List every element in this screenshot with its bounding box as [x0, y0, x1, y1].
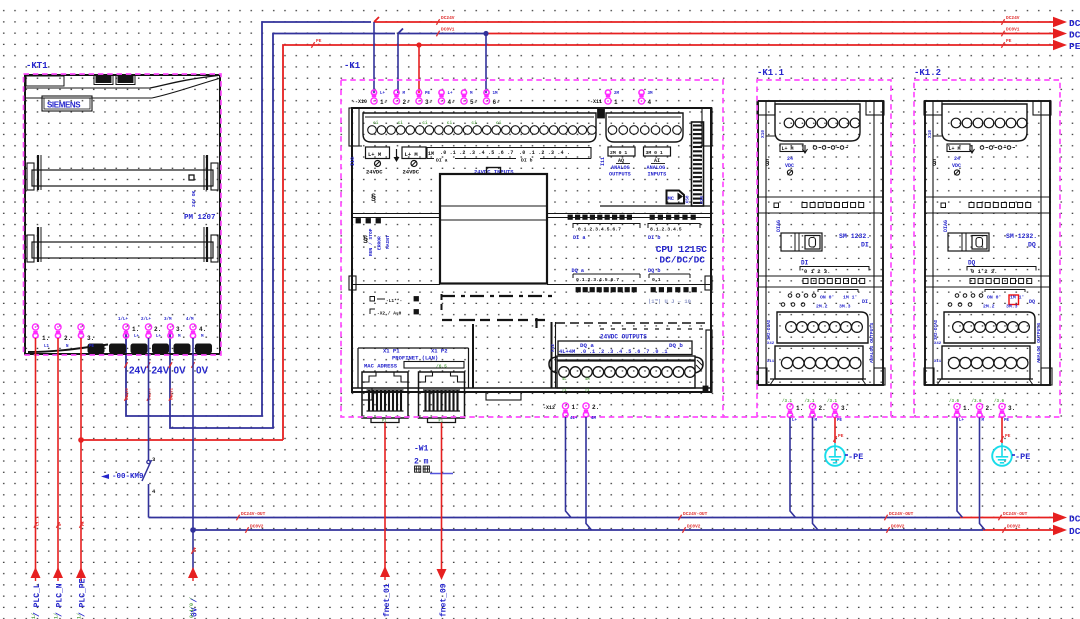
svg-text:2.: 2. — [154, 326, 161, 333]
svg-text:3M2-DIAG: 3M2-DIAG — [768, 319, 772, 340]
arrow 0V exit — [188, 567, 198, 578]
svg-text:fnet_01: fnet_01 — [383, 583, 392, 617]
svg-text:3.: 3. — [1008, 405, 1015, 412]
svg-text:DC: DC — [1069, 526, 1080, 537]
svg-text:PE: PE — [1006, 38, 1012, 44]
status LEDs RUN ERROR MAINT — [356, 219, 361, 224]
svg-text:DI b: DI b — [521, 158, 533, 164]
svg-text:-K1.2: -K1.2 — [914, 68, 941, 78]
svg-text:0V: 0V — [194, 547, 198, 552]
svg-text:DC24V-OUT: DC24V-OUT — [241, 511, 266, 517]
svg-text:-L1**-: -L1**- — [386, 298, 402, 304]
svg-text:ci: ci — [471, 120, 477, 126]
arrow DC24V bus exit right — [1053, 17, 1067, 27]
-K1.2 output terminal strip A — [944, 312, 1035, 343]
node junction PE to -X10:3 — [416, 42, 421, 47]
svg-text:DQ b: DQ b — [648, 268, 660, 274]
label DC24V-OUT left — [236, 515, 239, 521]
svg-text:2.: 2. — [64, 335, 71, 342]
terminal -X12:2 4M — [583, 403, 589, 417]
svg-text:DI: DI — [801, 260, 809, 267]
svg-text:SIEMENS: SIEMENS — [47, 101, 81, 110]
DI b LED row — [650, 215, 654, 219]
power supply -KT1 SIEMENS logo — [42, 96, 92, 111]
svg-text:1/: 1/ — [54, 613, 60, 619]
-K1.1 top terminal strip (7 screw terminals) — [775, 104, 860, 141]
wire -K1.2:1 to DC24V-OUT bus — [957, 418, 963, 518]
svg-text:24V OK: 24V OK — [191, 190, 197, 207]
svg-text:PM 1207: PM 1207 — [184, 214, 216, 222]
terminal -X11:1 2M — [605, 90, 611, 104]
svg-text:-X12: -X12 — [543, 405, 555, 411]
svg-text:24V: 24V — [152, 366, 170, 377]
terminal -X10:1 L+ — [371, 90, 377, 104]
label DC0V1 on top bus right — [1001, 31, 1004, 37]
svg-text:1.: 1. — [132, 326, 139, 333]
svg-text:X30: X30 — [699, 196, 705, 204]
wire -KT1:4 to DC0V2 bus and 0V exit — [192, 338, 194, 569]
DQ a LED row — [576, 288, 580, 292]
-K1.2 LED band — [925, 196, 1050, 198]
svg-text:2M.2: 2M.2 — [816, 304, 828, 310]
svg-text:X11: X11 — [767, 360, 775, 364]
svg-text:3M.3: 3M.3 — [1006, 304, 1018, 310]
terminal -X10:4 L+ — [438, 90, 444, 104]
arrow PLC_N exit — [53, 567, 63, 578]
svg-text:1.: 1. — [42, 335, 49, 342]
wire DC0V2 bottom bus (blue segment) — [193, 529, 983, 531]
DI b legend bracket — [648, 224, 700, 229]
power supply -KT1 24V OK LED — [189, 175, 194, 180]
svg-text:.0 .1 .2 .3 .4 .5 .6 .7: .0 .1 .2 .3 .4 .5 .6 .7 — [440, 150, 514, 156]
svg-text:ci: ci — [373, 120, 379, 126]
svg-text:-X11: -X11 — [590, 99, 602, 105]
svg-text:L+ M: L+ M — [405, 151, 419, 158]
svg-text:DC24V-OUT: DC24V-OUT — [1003, 511, 1028, 517]
-K1.2 output terminal strip B — [942, 346, 1030, 379]
svg-text:L1: L1 — [44, 345, 50, 349]
svg-text:4/M: 4/M — [186, 317, 194, 322]
svg-text:4M: 4M — [591, 417, 597, 421]
arrow glyph between power boxes — [396, 149, 398, 159]
svg-text:L+: L+ — [448, 92, 454, 96]
svg-text:DC0V1: DC0V1 — [441, 27, 455, 33]
PLC CPU -K1 dashed selection border — [341, 80, 723, 417]
terminal -KT1 N input (2) — [55, 324, 61, 338]
-K1.2 DIP switch block — [948, 233, 989, 251]
svg-text:1/: 1/ — [31, 613, 37, 619]
svg-text:ON 0': ON 0' — [987, 295, 1001, 301]
svg-text:1: 1 — [614, 99, 618, 106]
wire PLC_N from -KT1:2 — [57, 338, 59, 569]
analog out terminal box 2M 0 1 — [608, 147, 635, 156]
right bottom corner bracket — [706, 330, 712, 392]
svg-text:1/L+: 1/L+ — [118, 317, 129, 322]
svg-text:2M 0 1: 2M 0 1 — [610, 150, 627, 156]
svg-text:DC24V-OUT: DC24V-OUT — [889, 511, 914, 517]
analog in terminal box 3M 0 1 — [644, 147, 671, 156]
svg-text:/ PLC_L: / PLC_L — [33, 583, 42, 617]
svg-text:PE: PE — [1005, 433, 1011, 439]
svg-text:2.: 2. — [592, 404, 599, 411]
wire -K1.1:2 to DC0V2 bus — [813, 418, 819, 531]
DI terminal legend bracket — [427, 148, 591, 159]
svg-text:2/L+: 2/L+ — [141, 317, 152, 322]
power supply -KT1 lower divider bar — [32, 242, 213, 258]
svg-text:VDC: VDC — [952, 163, 961, 169]
wire DC0V1 top bus (blue segment) — [170, 34, 395, 429]
-K1.2 terminal dots row — [980, 146, 984, 150]
svg-text:§: § — [765, 158, 770, 167]
svg-text:SM 1232.: SM 1232. — [839, 233, 870, 240]
wire -KT1:2 to contact -00-KM9 — [148, 338, 150, 460]
svg-text:ANALOG OUTPUTS: ANALOG OUTPUTS — [1036, 323, 1042, 363]
svg-text:24: 24 — [954, 156, 960, 162]
svg-text:24: 24 — [787, 156, 793, 162]
svg-text:.0 .1 .2 .3 .4 .5 .6 .7 .0 .1: .0 .1 .2 .3 .4 .5 .6 .7 .0 .1 — [580, 349, 667, 355]
svg-text:24VDC OUTPUTS: 24VDC OUTPUTS — [600, 334, 647, 341]
svg-text:PE: PE — [838, 433, 844, 439]
svg-text:-W1: -W1 — [414, 445, 429, 454]
svg-text:L+: L+ — [792, 419, 798, 423]
wire fnet_09 from PROFINET P2 — [441, 423, 443, 570]
-K1.2 red marker box — [1009, 295, 1019, 305]
-K1.1 output terminal strip B — [775, 346, 863, 379]
svg-text:1M: 1M — [493, 92, 499, 96]
svg-text:L+: L+ — [380, 92, 386, 96]
svg-text:RUN / STOP: RUN / STOP — [368, 228, 374, 256]
svg-text:DC0V2: DC0V2 — [687, 524, 701, 530]
connector detail row 2 — [370, 309, 375, 314]
arrow fnet_01 exit — [380, 566, 390, 577]
RJ45 connector at x=441.5 — [419, 372, 465, 418]
RJ45 connector at x=385 — [362, 372, 408, 418]
svg-text:/ PLC_PE: / PLC_PE — [79, 578, 88, 617]
-K1.1 DIP switch block — [781, 233, 822, 251]
svg-text:L+: L+ — [134, 335, 140, 339]
svg-text:L+: L+ — [156, 335, 162, 339]
svg-text:3-: 3- — [425, 99, 432, 106]
wire PLC_PE from -KT1:3 with junction — [80, 338, 82, 569]
-K1.2 top mounting tabs — [924, 101, 942, 115]
svg-text:5-: 5- — [470, 99, 477, 106]
svg-text:X10: X10 — [927, 130, 933, 138]
svg-text:INPUTS: INPUTS — [648, 172, 667, 178]
svg-text:DQ b: DQ b — [669, 342, 683, 349]
svg-text:4: 4 — [648, 99, 652, 106]
label PE on top bus right — [1001, 42, 1004, 48]
svg-text:MC: MC — [668, 195, 675, 202]
svg-text:-00-KM9: -00-KM9 — [112, 473, 144, 481]
svg-text:2.: 2. — [819, 405, 826, 412]
signal module -K1.1 dashed selection border — [757, 80, 891, 417]
svg-text:DC0V2: DC0V2 — [250, 524, 264, 530]
-K1.1 power box L+ M — [780, 144, 803, 152]
wire drop to -X10:2 — [397, 34, 399, 94]
terminal -X10:6 1M — [483, 90, 489, 104]
svg-text:PE: PE — [425, 92, 431, 96]
label DC24V-OUT right1 — [884, 515, 887, 521]
svg-text:DC: DC — [1069, 18, 1080, 29]
wire PE top bus (red) — [283, 45, 1053, 440]
svg-text:§: § — [363, 234, 368, 244]
svg-text:DIAG: DIAG — [943, 220, 949, 232]
-K1.1 LED band — [758, 196, 883, 198]
-K1.1 bottom base — [770, 378, 866, 380]
svg-text:DC24V-OUT: DC24V-OUT — [683, 511, 708, 517]
right hatch dash band — [556, 322, 710, 324]
DI a legend bracket — [573, 224, 640, 229]
svg-text:PE: PE — [837, 419, 843, 423]
terminal -X10:2 M — [393, 90, 399, 104]
PLC CPU -K1 top terminal strip left (24 screw terminals) — [363, 113, 596, 142]
svg-text:ANALOG: ANALOG — [647, 165, 666, 171]
arrow PLC_PE exit — [76, 567, 86, 578]
svg-text:ci: ci — [422, 120, 428, 126]
power supply -KT1 PM1207 body outline — [25, 75, 220, 354]
svg-text:.0 .1 .2 .3 .4 .: .0 .1 .2 .3 .4 . — [519, 150, 570, 156]
label DC0V2 right2 — [1002, 527, 1005, 533]
svg-text:PE: PE — [1069, 41, 1080, 52]
connector detail row 1 — [370, 297, 375, 302]
label DC0V2 right1 — [886, 527, 889, 533]
wire contact -00-KM9 to DC24V-OUT bus — [148, 484, 150, 518]
power supply -KT1 DIN clips row — [88, 344, 104, 353]
wire PLC_L from -KT1:1 — [35, 338, 37, 569]
svg-text:24V: 24V — [129, 366, 147, 377]
svg-text:3.: 3. — [176, 326, 183, 333]
wire -K1.1:3 to PE earth — [834, 418, 836, 444]
terminal -X12:1 4L+ — [562, 403, 568, 417]
-K1.2 top terminal strip (7 screw terminals) — [942, 104, 1027, 141]
svg-text:ci: ci — [447, 120, 453, 126]
wire PE horizontal run to PE bus riser — [81, 439, 283, 441]
svg-text:DI: DI — [861, 242, 869, 249]
svg-text:1.: 1. — [963, 405, 970, 412]
svg-text:/6.5: /6.5 — [436, 364, 447, 370]
svg-text:24VDC: 24VDC — [366, 169, 383, 176]
bus connector comb right side — [692, 122, 704, 206]
DQ output legend box — [558, 341, 692, 355]
svg-text:MAC ADRESS: MAC ADRESS — [364, 363, 398, 370]
power supply -KT1 bottom clip curve — [28, 345, 108, 353]
terminal -KT1 L1 input (1) — [32, 324, 38, 338]
wire DC0V1 red segment to right edge — [486, 33, 1053, 35]
svg-text:fnet_09: fnet_09 — [440, 583, 449, 617]
wire DC24V top bus (red segment to right edge) — [374, 17, 1053, 22]
svg-text:I10: I10 — [350, 157, 356, 166]
svg-text:-PE: -PE — [848, 452, 863, 462]
svg-text:DQ a: DQ a — [572, 268, 584, 274]
svg-text:ANALOG: ANALOG — [611, 165, 630, 171]
svg-text:1.: 1. — [796, 405, 803, 412]
svg-text:2 m: 2 m — [414, 458, 429, 467]
terminal -X10:5 M — [461, 90, 467, 104]
svg-text:1.: 1. — [572, 404, 579, 411]
terminal -KT1 PE input (3) — [78, 324, 84, 338]
svg-text:X42: X42 — [934, 342, 942, 346]
svg-text:(1: (1 — [562, 388, 567, 393]
status LED band divider — [352, 213, 440, 215]
svg-text:ON 0': ON 0' — [820, 295, 834, 301]
svg-text:1M 1': 1M 1' — [1010, 295, 1024, 301]
label DC0V1 on top bus left — [436, 31, 439, 37]
-K1.1 output terminal strip A — [777, 312, 868, 343]
signal module -K1.1 body outline — [758, 101, 883, 385]
terminal -X10:3 PE — [416, 90, 422, 104]
svg-text:§: § — [932, 158, 937, 167]
svg-text:3M2-DIAG: 3M2-DIAG — [935, 319, 939, 340]
svg-text:4.: 4. — [199, 326, 206, 333]
svg-text:-X2 / A≡0: -X2 / A≡0 — [377, 311, 402, 317]
flap hinge lines — [440, 205, 547, 207]
wire -K1.2:2 to DC0V2 bus — [980, 418, 986, 531]
svg-text:⌊1™| U J ─ 10: ⌊1™| U J ─ 10 — [648, 298, 691, 305]
node junction DC0V1 to -X10:6 — [483, 31, 488, 36]
svg-text:0.1: 0.1 — [652, 277, 661, 283]
svg-text:PE: PE — [82, 521, 86, 526]
PLC CPU -K1 left mounting bracket — [349, 108, 359, 146]
-K1.2 channel LED band — [925, 275, 1050, 277]
PLC CPU -K1 body outline — [352, 108, 711, 392]
label PE on top bus left — [311, 42, 314, 48]
svg-text:OUTPUTS: OUTPUTS — [609, 172, 631, 178]
-K1.1 top mounting tabs — [757, 101, 775, 115]
svg-text:DC0V2: DC0V2 — [891, 524, 905, 530]
svg-text:X12: X12 — [550, 344, 556, 352]
svg-text:DC0V2: DC0V2 — [1007, 524, 1021, 530]
svg-text:1M: 1M — [428, 151, 434, 157]
svg-text:MAINT: MAINT — [385, 235, 391, 249]
svg-text:0V: 0V — [196, 366, 209, 377]
svg-text:DC0V1: DC0V1 — [1006, 27, 1020, 33]
svg-text:3M 0 1: 3M 0 1 — [646, 150, 663, 156]
svg-text:2M.2: 2M.2 — [983, 304, 995, 310]
svg-text:X10: X10 — [760, 130, 766, 138]
svg-text:-K1.1: -K1.1 — [757, 68, 785, 78]
wire fnet_01 from PROFINET P1 — [384, 423, 386, 569]
DQ b LED row — [651, 288, 655, 292]
svg-text:.0.1.2.3.4.5.6.7: .0.1.2.3.4.5.6.7 — [575, 227, 621, 233]
svg-text:X11: X11 — [934, 360, 942, 364]
svg-text:L+: L+ — [959, 419, 965, 423]
-K1.2 wiring legend circles — [955, 294, 959, 298]
svg-text:VDC: VDC — [785, 163, 794, 169]
svg-text:L+ M: L+ M — [782, 146, 794, 152]
dashed border gap segment between -K1 and -K1.1 — [723, 416, 757, 418]
svg-text:§: § — [371, 192, 376, 202]
signal module -K1.2 body outline — [925, 101, 1050, 385]
DI a LED row — [568, 215, 572, 219]
arrow fnet_09 exit — [437, 569, 447, 580]
wire -K1.2:3 to PE earth — [1001, 418, 1003, 444]
svg-text:3/M: 3/M — [164, 317, 172, 322]
svg-text:X42: X42 — [767, 342, 775, 346]
svg-text:DC: DC — [1069, 514, 1080, 525]
label DC24V on top bus left — [436, 19, 439, 25]
power terminal box L+ M second — [402, 147, 426, 159]
MAC address field — [404, 362, 464, 369]
svg-text:DIAG: DIAG — [776, 220, 782, 232]
svg-text:X50: X50 — [685, 195, 691, 203]
svg-text:DC0V1: DC0V1 — [171, 387, 175, 400]
svg-text:4L+4M: 4L+4M — [559, 349, 575, 355]
arrow DC24V-OUT exit right — [1053, 512, 1067, 522]
earth symbol PE at -K1.2 — [992, 446, 1012, 466]
wire DC0V2 bottom bus (red segment) — [983, 529, 1053, 531]
svg-text:ANALOG OUTPUTS: ANALOG OUTPUTS — [869, 323, 875, 363]
wire DC0V1 mid segment blue to junction — [398, 29, 486, 34]
svg-text:DC24V: DC24V — [126, 387, 130, 400]
svg-text:3.: 3. — [87, 335, 94, 342]
svg-text:ci: ci — [496, 120, 502, 126]
-K1.1 channel LED band — [758, 275, 883, 277]
module edge bracket marks — [349, 276, 356, 290]
wire DC24V-OUT bottom bus (red segment) — [960, 517, 1053, 519]
contact -00-KM9 (NO contact) — [147, 460, 150, 463]
svg-text:1-: 1- — [380, 99, 387, 106]
svg-text:3M: 3M — [648, 92, 654, 96]
svg-text:DQ: DQ — [1028, 242, 1036, 249]
svg-text:DI b: DI b — [648, 235, 660, 241]
-K1.2 bottom base — [937, 378, 1033, 380]
svg-text:0V: 0V — [174, 366, 187, 377]
arrow PLC_L exit — [31, 567, 41, 578]
wire drop to -X10:3 — [418, 45, 420, 93]
svg-text:3.: 3. — [841, 405, 848, 412]
memory card slot MC — [667, 191, 685, 204]
svg-text:DQ: DQ — [968, 260, 976, 267]
power terminal box L+ M first — [366, 147, 390, 159]
label DC24V on top bus right — [1001, 19, 1004, 25]
svg-text:DC: DC — [1069, 30, 1080, 41]
svg-text:DI a: DI a — [436, 158, 448, 164]
svg-text:PE: PE — [89, 345, 95, 349]
label DC24V-OUT mid — [678, 515, 681, 521]
svg-text:PROFINET (LAN): PROFINET (LAN) — [392, 355, 438, 362]
wire -X12:2 to DC0V2 bus — [586, 417, 592, 530]
svg-text:DQ a: DQ a — [580, 342, 594, 349]
wire -X12:1 to DC24V-OUT bus — [566, 417, 572, 518]
power supply -KT1 upper divider bar — [32, 170, 213, 186]
svg-text:1M 1': 1M 1' — [843, 295, 857, 301]
signal module -K1.2 dashed selection border — [914, 80, 1060, 417]
node junction 0V wire DC0V2 bus — [190, 527, 196, 533]
flap lower hatch marks — [441, 295, 553, 297]
svg-text:0.1.2.3.4.5.6.7: 0.1.2.3.4.5.6.7 — [576, 277, 619, 283]
PLC CPU -K1 top terminal strip right (7 screw terminals) — [606, 113, 683, 142]
earth symbol PE at -K1.1 — [825, 446, 845, 466]
svg-text:--X10: --X10 — [352, 99, 367, 105]
dashed border gap segment between -K1.1 and -K1.2 — [891, 416, 914, 418]
module feet — [362, 388, 372, 400]
arrow DC0V2 exit right — [1053, 525, 1067, 535]
svg-text:I11: I11 — [600, 157, 606, 166]
svg-text:0 1 2 3.: 0 1 2 3. — [971, 268, 997, 275]
svg-text:6-: 6- — [493, 99, 500, 106]
terminal -X11:4 3M — [638, 90, 644, 104]
svg-text:L+ M: L+ M — [368, 151, 382, 158]
svg-text:DI a: DI a — [573, 235, 585, 241]
svg-text:4-: 4- — [448, 99, 455, 106]
svg-text:4L: 4L — [562, 378, 567, 382]
mid module divider — [352, 284, 440, 286]
svg-text:-K1: -K1 — [344, 61, 361, 71]
svg-text:0:1/0 /: 0:1/0 / — [189, 597, 195, 618]
svg-text:L1:1: L1:1 — [37, 516, 41, 526]
power supply -KT1 dashed selection border — [24, 74, 222, 355]
svg-text:4M: 4M — [585, 378, 590, 382]
